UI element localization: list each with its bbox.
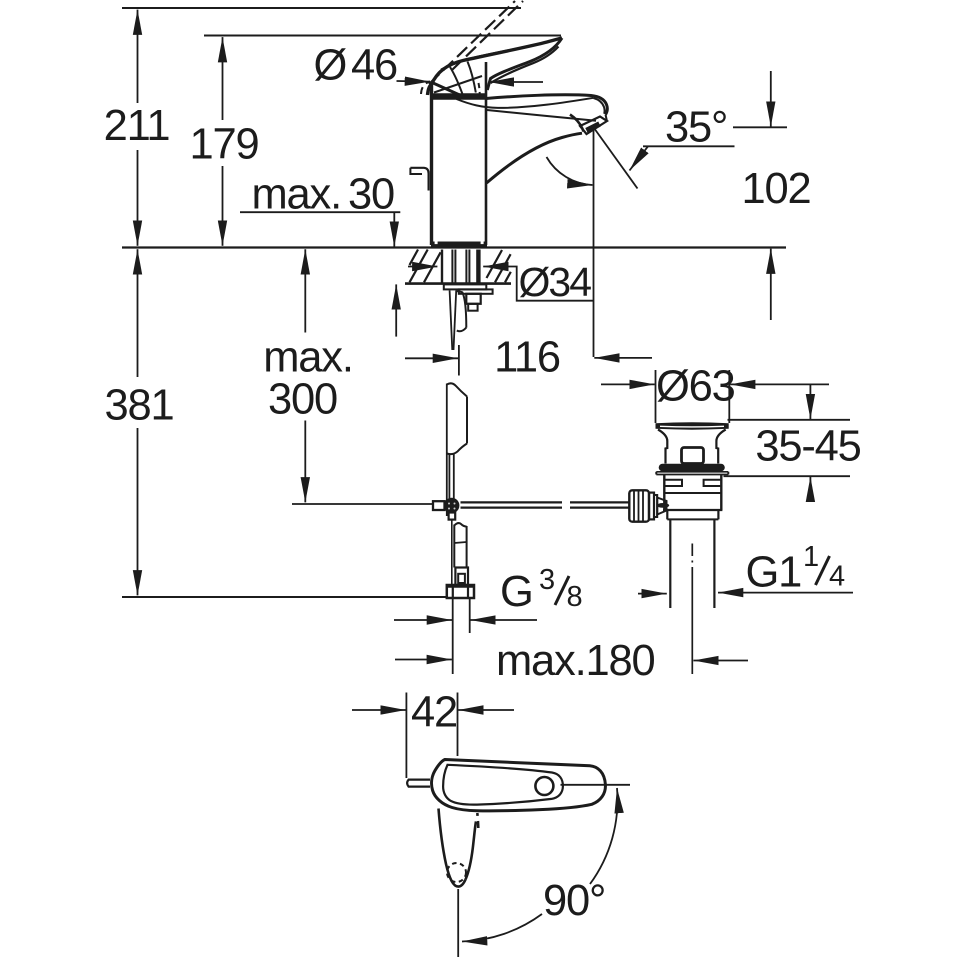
dimension 35-45 reference lines: [728, 419, 851, 421]
dimension max.180 left arrow: [395, 659, 452, 661]
lever handle inner top line: [441, 38, 562, 69]
top view lever axis line: [561, 784, 631, 786]
svg-text:42: 42: [411, 689, 457, 737]
bottom reference line (381 lower datum): [122, 596, 449, 598]
lever handle lower edge with tip: [487, 38, 562, 90]
dimension 42 right arrow: [458, 709, 514, 711]
svg-text:G1: G1: [746, 549, 802, 597]
pop-up rod knob at back: [410, 168, 428, 191]
hose end nut inner rect: [458, 574, 465, 583]
dimension 102 upper arrow: [770, 71, 772, 127]
dimension 35-45 arrows: [809, 384, 811, 419]
svg-text:179: 179: [190, 121, 259, 169]
diameter 34 left arrow: [408, 266, 437, 268]
svg-text:90°: 90°: [543, 877, 605, 925]
body left edge: [430, 84, 433, 245]
G1 1/4 left arrow: [638, 593, 667, 595]
G 3/8 left arrow: [394, 619, 452, 621]
handle-body junction bar: [432, 93, 487, 100]
svg-text:35°: 35°: [665, 104, 727, 152]
horseshoe washer: [459, 289, 493, 293]
dimension 179 line: [222, 37, 224, 120]
svg-text:116: 116: [494, 334, 560, 382]
G 3/8 hex nut: [447, 585, 474, 598]
top view pop-up rod knob: [407, 780, 430, 787]
G 3/8 pipe extension lines: [452, 599, 454, 675]
35 deg angled axis line: [594, 128, 638, 189]
svg-text:102: 102: [742, 165, 811, 213]
dimension 102 upper reference line: [733, 126, 787, 128]
junction screw tip square: [449, 513, 456, 520]
35 deg outlet axis vertical extension: [593, 130, 595, 357]
dimension max.300 line: [304, 249, 306, 332]
dimension 116 left arrow: [405, 357, 458, 359]
drain seal disc: [663, 464, 722, 472]
hose end piece edges: [453, 525, 455, 568]
max.30 lower arrow: [395, 284, 397, 336]
drain body ledge: [664, 492, 721, 494]
spout lip curve: [570, 115, 584, 132]
hose end piece top break: [454, 523, 466, 526]
clamp ring: [649, 493, 654, 520]
cartridge dome arc: [450, 67, 464, 97]
pop-up rod lower thin line: [451, 520, 453, 596]
top view spout left edge: [439, 809, 466, 887]
top view lever inner line: [443, 765, 563, 805]
svg-text:211: 211: [104, 102, 170, 150]
hose upper stub break wave: [457, 328, 467, 332]
clamp pivot eye: [657, 503, 669, 508]
hose barrel bottom break: [447, 444, 467, 455]
svg-text:35-45: 35-45: [755, 423, 860, 471]
diameter 63 extension lines: [655, 370, 657, 423]
hose end band line: [454, 542, 466, 543]
pop-up rod double line: [448, 454, 450, 499]
svg-text:Ø: Ø: [314, 42, 347, 90]
35 deg leader with arrow: [643, 145, 735, 147]
drain centreline dash-dot: [691, 544, 693, 557]
base o-ring notch right: [481, 242, 484, 245]
90 deg arc with arrows: [590, 788, 618, 884]
lever handle top silhouette: [428, 38, 563, 95]
top view spout right edge hidden dashes: [477, 813, 478, 828]
handle neck diagonal line: [434, 76, 482, 93]
dimension 211 line: [137, 10, 139, 103]
raised handle dashed line A: [429, 1, 515, 84]
dimension 42 left arrow: [352, 709, 406, 711]
pop-up linkage horizontal rod: [461, 501, 563, 503]
drain body sides: [663, 475, 665, 511]
spout belly curve: [487, 133, 583, 183]
pop-up rod wedge below deck: [450, 291, 453, 351]
svg-text:8: 8: [567, 581, 583, 613]
42 extension lines: [405, 693, 407, 779]
G1 1/4 right arrow: [718, 592, 853, 594]
diameter 46 right arrow: [489, 81, 543, 83]
drain flange rim: [656, 422, 729, 430]
diameter 34 right arrow and leader to label: [483, 266, 508, 268]
deck section bottom line: [405, 282, 511, 285]
raised handle dashed pivot arc: [421, 82, 430, 95]
svg-text:3: 3: [539, 564, 555, 596]
mousseur housing: [580, 117, 607, 135]
top view lever outline: [432, 760, 606, 811]
svg-text:Ø34: Ø34: [519, 259, 592, 305]
top reference line (211 upper datum): [122, 7, 521, 9]
G 3/8 right arrow: [470, 619, 537, 621]
hose end nut section: [455, 568, 468, 586]
svg-text:1: 1: [803, 541, 819, 573]
drain washer disc: [656, 471, 728, 473]
drain lower section: [666, 510, 668, 519]
base o-ring notch left: [435, 242, 438, 245]
raised handle dashed line B: [452, 1, 523, 70]
deck / mounting surface line: [122, 246, 786, 248]
deck hatch left block: [410, 250, 441, 283]
svg-text:4: 4: [829, 561, 845, 593]
diameter 63 right arrow: [730, 383, 829, 385]
svg-text:381: 381: [105, 382, 174, 430]
dimension 116 right arrow: [594, 357, 652, 359]
svg-text:max.180: max.180: [496, 637, 654, 685]
deck hatch right block: [487, 250, 511, 282]
svg-text:300: 300: [268, 376, 337, 424]
top view spout right edge: [466, 822, 477, 880]
dimension 381 line: [137, 249, 139, 377]
svg-text:Ø63: Ø63: [656, 363, 735, 411]
svg-text:G: G: [500, 568, 533, 616]
svg-text:max.: max.: [263, 334, 352, 382]
clamp ring 2: [654, 495, 657, 517]
handle lower-left thick edge: [432, 83, 463, 97]
supply hose upper stub: [456, 291, 466, 328]
pop-up linkage junction screw: [444, 498, 460, 514]
cartridge dome hidden dashed arc: [479, 83, 480, 97]
max.300 lower extension line to pop-up rod: [292, 503, 433, 505]
linkage rod end clamp: [433, 501, 445, 510]
svg-text:46: 46: [351, 42, 397, 90]
max.30 upper arrow: [393, 212, 395, 246]
top view lever button: [535, 777, 553, 795]
spout lower inner line: [487, 110, 596, 121]
spout top edge: [486, 95, 607, 115]
spout inner top line: [457, 98, 594, 108]
mounting stabilizing plate: [444, 284, 487, 289]
faucet centreline tick: [458, 345, 460, 376]
dimension 102 lower arrow: [770, 249, 772, 320]
shank lines through deck: [441, 250, 443, 283]
drain overflow slot right: [704, 480, 721, 486]
drain overflow slot left: [665, 480, 682, 486]
35 deg angle arc with arrow: [547, 157, 593, 185]
mousseur outlet face: [587, 124, 600, 131]
max.30 shelf line: [240, 211, 400, 213]
dimension max.180 right arrow: [693, 660, 748, 662]
body right edge: [485, 62, 488, 245]
mounting nut: [466, 294, 480, 304]
drain funnel neck right: [716, 430, 725, 464]
diameter 63 left arrow: [601, 383, 655, 385]
body base flange: [431, 242, 487, 248]
linkage clamp knurled nut: [629, 490, 649, 521]
drain compression ledge: [663, 509, 722, 511]
top view centreline: [457, 889, 459, 957]
diameter 46 left arrow: [397, 80, 431, 83]
spout nose end line: [606, 115, 607, 121]
drain funnel neck left: [658, 430, 667, 464]
drain tailpipe: [669, 519, 671, 608]
hose barrel top break: [447, 383, 467, 396]
top view mousseur dashed circle: [447, 863, 466, 882]
mounting nut lower step: [468, 304, 477, 311]
179 upper reference line: [204, 35, 561, 37]
clamp cone: [657, 498, 666, 515]
spout nose inner curve: [594, 98, 605, 114]
supply hose barrel right edge: [466, 397, 468, 444]
supply hose barrel left edge: [446, 384, 448, 517]
drain top knob: [682, 448, 704, 464]
